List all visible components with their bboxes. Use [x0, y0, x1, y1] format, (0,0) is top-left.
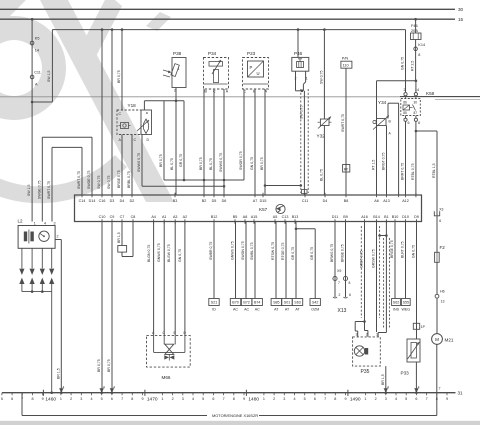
wire SW 0.75 rail-P46 [297, 30, 299, 58]
wire BRGT 0.75 Y34A-A13 [382, 126, 387, 196]
svg-text:6: 6 [314, 397, 316, 401]
svg-text:SW 0,75: SW 0,75 [107, 176, 111, 189]
wire GNWS 0.75 B5-B70 [231, 222, 236, 299]
svg-text:4: 4 [90, 397, 92, 401]
wire Y34 B loop [388, 103, 399, 195]
svg-text:C8: C8 [131, 215, 136, 219]
svg-text:SWRT 0,75: SWRT 0,75 [341, 114, 345, 132]
svg-text:1: 1 [364, 397, 366, 401]
svg-text:GN 0,75: GN 0,75 [178, 249, 182, 262]
svg-text:B9: B9 [343, 215, 348, 219]
svg-text:K57: K57 [259, 207, 268, 212]
svg-text:BRBL 0,75: BRBL 0,75 [127, 171, 131, 188]
connector S55 WEG [401, 299, 410, 312]
svg-text:4: 4 [418, 386, 420, 390]
svg-text:GRSW 0,75: GRSW 0,75 [372, 249, 376, 268]
wire BRBL 0.75 Y18C-D2 [127, 135, 132, 196]
wire RTBL 1.5 to F2 [416, 131, 437, 252]
svg-text:RTGE 0,75: RTGE 0,75 [281, 243, 285, 260]
wire BR 0.75 P23A-D15 [260, 89, 266, 195]
wire SW 0.75 rail-Y32 [319, 30, 324, 119]
wire SW 0.75 P46-C11 [300, 91, 305, 195]
svg-text:14: 14 [35, 49, 39, 53]
connector X3 pin 6 [434, 207, 443, 223]
svg-text:D4: D4 [120, 199, 125, 203]
svg-text:BR 0,75: BR 0,75 [117, 70, 121, 83]
svg-text:SWBR 0,75: SWBR 0,75 [209, 242, 213, 260]
svg-text:2: 2 [375, 397, 377, 401]
svg-text:GN 0,75: GN 0,75 [250, 157, 254, 170]
svg-text:RT 1,5: RT 1,5 [372, 160, 376, 170]
svg-text:P23: P23 [247, 51, 256, 56]
connector P/N 110 [341, 57, 352, 69]
svg-text:20A: 20A [411, 28, 418, 33]
svg-text:SW 0,75: SW 0,75 [300, 106, 304, 119]
svg-text:C16: C16 [99, 199, 106, 203]
connector line X58 [400, 81, 480, 97]
wire shield ground [265, 184, 307, 193]
wire bus 15 [0, 17, 464, 22]
svg-text:B72: B72 [243, 301, 249, 305]
svg-text:AC: AC [255, 308, 260, 312]
svg-text:BRWS 0,75: BRWS 0,75 [330, 244, 334, 262]
svg-text:INS: INS [393, 308, 400, 312]
connector S42 OZM [310, 299, 320, 312]
svg-text:GNWS 0,75: GNWS 0,75 [231, 241, 235, 260]
connector S63 AT [292, 299, 302, 312]
svg-text:A2: A2 [183, 215, 188, 219]
svg-text:X3: X3 [439, 207, 443, 211]
node junction RT [415, 80, 418, 83]
decorative bottom margin band [0, 421, 480, 425]
wire GN 0.75 rail-K58 pin2 [401, 30, 406, 92]
wire BR 0.75 C9-ground [107, 222, 115, 395]
wire SWGR 0.75 P23C ground [239, 89, 244, 180]
svg-text:SWGE 0,75: SWGE 0,75 [37, 180, 41, 199]
wire P33-ground [414, 362, 419, 394]
solenoid valve Y32 [317, 117, 332, 139]
svg-text:SWGE 0,75: SWGE 0,75 [87, 170, 91, 189]
svg-text:GNWS 0,75: GNWS 0,75 [157, 243, 161, 262]
connector boundary line X58 across page [0, 97, 480, 100]
svg-text:RTBL 1,5: RTBL 1,5 [432, 163, 436, 178]
svg-text:RT: RT [344, 167, 348, 171]
svg-text:2: 2 [404, 88, 406, 92]
svg-text:A3: A3 [173, 215, 178, 219]
svg-text:a: a [146, 111, 148, 115]
wire BL 0.75 Y32-D1 [319, 126, 324, 196]
svg-text:S85: S85 [273, 301, 279, 305]
svg-text:3: 3 [385, 397, 387, 401]
svg-text:3: 3 [54, 222, 56, 226]
svg-text:1P: 1P [421, 325, 426, 329]
svg-text:C14: C14 [79, 199, 86, 203]
MAP sensor P23 [243, 51, 269, 93]
svg-text:86: 86 [403, 101, 407, 105]
svg-text:RTBL 0,75: RTBL 0,75 [411, 163, 415, 180]
svg-text:B2: B2 [202, 199, 207, 203]
svg-text:8: 8 [233, 397, 235, 401]
connector B74 AC [252, 299, 262, 312]
svg-text:D9: D9 [414, 215, 419, 219]
svg-text:6: 6 [349, 293, 351, 297]
svg-text:BLSW 0,75: BLSW 0,75 [167, 244, 171, 262]
svg-text:H6: H6 [440, 290, 445, 294]
svg-text:C11: C11 [302, 199, 309, 203]
svg-text:D6: D6 [222, 199, 227, 203]
svg-text:D5: D5 [212, 199, 217, 203]
wire GRSW 0.75 B14-P35 1 [372, 222, 377, 333]
connector X13 [333, 269, 351, 314]
svg-text:B1: B1 [384, 215, 389, 219]
svg-text:A6: A6 [374, 199, 379, 203]
svg-text:D2: D2 [130, 199, 135, 203]
svg-text:9: 9 [446, 397, 448, 401]
svg-text:B8: B8 [344, 199, 349, 203]
svg-text:X9: X9 [337, 269, 341, 273]
svg-text:BR 0,75: BR 0,75 [199, 157, 203, 170]
svg-text:7: 7 [338, 281, 340, 285]
svg-text:ID: ID [212, 308, 216, 312]
svg-text:9: 9 [42, 397, 44, 401]
throttle potentiometer P34 [204, 51, 229, 93]
wire BRGE 0.75 B9-X13 [341, 222, 346, 298]
svg-text:SW 0,75: SW 0,75 [97, 176, 101, 189]
svg-text:B3: B3 [173, 199, 178, 203]
svg-text:RTSW 0,75: RTSW 0,75 [271, 242, 275, 260]
wire BLRT 0.75 D10-S55 [401, 222, 406, 299]
solenoid valve Y18 [117, 103, 152, 142]
svg-text:1460: 1460 [45, 397, 56, 403]
svg-text:GRBT 0,75: GRBT 0,75 [360, 251, 364, 268]
svg-text:SW 1,5: SW 1,5 [47, 70, 51, 82]
svg-text:C13: C13 [282, 215, 289, 219]
spark plugs and HT leads [19, 248, 54, 394]
svg-text:3: 3 [80, 397, 82, 401]
svg-text:BR 1,5: BR 1,5 [117, 232, 121, 243]
svg-text:GR 0,75: GR 0,75 [179, 154, 183, 167]
svg-text:7: 7 [324, 397, 326, 401]
svg-text:4: 4 [395, 397, 397, 401]
wire BRWS 0.75 D11-X13 [330, 222, 335, 298]
svg-text:BRGE 0,75: BRGE 0,75 [390, 240, 394, 258]
svg-text:SWGN 0,75: SWGN 0,75 [241, 241, 245, 260]
svg-text:4: 4 [103, 386, 105, 390]
wire P46 pin1 [303, 71, 305, 91]
svg-text:6: 6 [439, 219, 441, 223]
svg-text:M21: M21 [445, 338, 454, 343]
svg-text:A16: A16 [361, 215, 368, 219]
svg-text:1: 1 [60, 397, 62, 401]
svg-text:P: P [250, 65, 253, 70]
pump motor M21 [432, 334, 454, 345]
svg-text:P33: P33 [401, 371, 410, 376]
svg-text:2: 2 [70, 397, 72, 401]
svg-text:S01: S01 [284, 301, 290, 305]
svg-text:8: 8 [349, 281, 351, 285]
wire GN 0.75 P23B-A7 [250, 89, 255, 195]
svg-text:BRGE 0,75: BRGE 0,75 [117, 170, 121, 188]
wire to M21 [436, 298, 438, 334]
svg-text:C: C [134, 138, 137, 142]
svg-text:B10: B10 [392, 215, 399, 219]
svg-text:5: 5 [202, 397, 204, 401]
svg-text:2: 2 [366, 333, 368, 337]
svg-text:D4: D4 [323, 199, 328, 203]
svg-text:B12: B12 [211, 215, 218, 219]
svg-text:A8: A8 [243, 215, 248, 219]
svg-text:K14: K14 [418, 43, 425, 47]
svg-text:4: 4 [63, 386, 65, 390]
wire SWRT 0.75 110-B8 [341, 68, 350, 195]
ground bus 31 [1, 390, 463, 403]
connector B72 AC [241, 299, 251, 312]
svg-text:BR 1,5: BR 1,5 [381, 374, 385, 385]
svg-text:S63: S63 [294, 301, 300, 305]
wire SW 0.75 rail-D3 [107, 30, 112, 195]
svg-text:6: 6 [111, 397, 113, 401]
svg-text:BR 0,75: BR 0,75 [97, 359, 101, 372]
svg-text:110: 110 [343, 64, 349, 68]
wire SWBR 0.75 B12-S21 [209, 222, 214, 299]
wire GN 0.75 D9-P33 [412, 222, 426, 340]
relay X58 fuel pump relay [401, 97, 421, 116]
svg-text:K58: K58 [426, 91, 435, 96]
wire SWGE 0.75 D14-L2 pin4 [37, 137, 92, 221]
wire BR 1.5 P35-ground [381, 366, 389, 394]
svg-text:A7: A7 [253, 199, 258, 203]
svg-text:7: 7 [223, 397, 225, 401]
svg-text:A5: A5 [273, 215, 278, 219]
connector S21 ID [209, 299, 219, 312]
solenoid valve Y34 [373, 100, 392, 136]
fuel injector P46 [292, 51, 309, 81]
svg-text:A1: A1 [162, 215, 167, 219]
svg-text:85: 85 [403, 111, 407, 115]
svg-text:SW 0,75: SW 0,75 [319, 71, 323, 84]
wire BL 0.75 P34C-D5 [209, 89, 214, 195]
svg-text:F2: F2 [440, 245, 446, 250]
label MOTOR/ENGINE X16SZR [212, 413, 258, 418]
wire GRBT 0.75 A16-P35 2 [360, 222, 368, 337]
wire RTBL 0,75 [411, 121, 417, 195]
wire link to rail [32, 30, 52, 102]
svg-text:7: 7 [439, 387, 441, 391]
svg-text:31: 31 [458, 391, 464, 396]
svg-text:AC: AC [244, 308, 249, 312]
wire BR 0.75 P34B-B2 [199, 89, 204, 195]
svg-text:C7: C7 [120, 215, 125, 219]
wire BR 0.75 C10-ground [97, 222, 105, 395]
svg-text:D3: D3 [110, 199, 115, 203]
svg-text:C: C [119, 112, 122, 116]
wire SWGN 0.75 A8-B72 [241, 222, 246, 299]
svg-text:6: 6 [408, 121, 410, 125]
svg-text:7: 7 [426, 397, 428, 401]
svg-text:BR 0,75: BR 0,75 [107, 359, 111, 372]
svg-text:SWRT 0,75: SWRT 0,75 [47, 181, 51, 199]
fuse F46 20A [411, 18, 422, 40]
svg-text:9: 9 [141, 397, 143, 401]
svg-text:2: 2 [339, 293, 341, 297]
wire RTSW 0.75 A5-S85 [271, 222, 276, 299]
node bus15 tap [31, 18, 34, 21]
wire Y18a to P38 [144, 100, 184, 111]
temperature sensor P38 [163, 51, 186, 93]
svg-text:6: 6 [212, 397, 214, 401]
connector K5 pin 14 [30, 37, 39, 53]
wire BL 0.75 P38-B3 [170, 88, 176, 196]
wire SWWS 0.75 P34A-D6 [219, 89, 225, 195]
svg-text:6: 6 [415, 397, 417, 401]
svg-text:3: 3 [356, 333, 358, 337]
svg-text:RT 2,5: RT 2,5 [411, 61, 415, 71]
svg-text:S42: S42 [312, 301, 318, 305]
svg-text:BRRT 0,75: BRRT 0,75 [401, 163, 405, 180]
svg-text:P34: P34 [208, 51, 217, 56]
svg-text:5: 5 [101, 397, 103, 401]
wire BR 1.5 L2 pin2-ground [55, 240, 64, 395]
svg-text:A15: A15 [251, 215, 258, 219]
wire SWBL 0.75 A15-B74 [250, 222, 255, 299]
idle control stepper motor M66 [147, 331, 191, 380]
wire to Y34 and A6 [372, 81, 416, 195]
svg-text:7: 7 [121, 397, 123, 401]
svg-text:GN 0,75: GN 0,75 [412, 245, 416, 258]
svg-text:4: 4 [44, 222, 46, 226]
svg-text:3: 3 [283, 397, 285, 401]
wire SWWS 0.75 Y18D ground [137, 135, 224, 187]
svg-text:Y32: Y32 [317, 134, 326, 139]
svg-text:1490: 1490 [350, 397, 361, 403]
wire BRGE 0.75 Y18A-D4 [117, 135, 122, 196]
wire sensor ground bus [159, 101, 244, 182]
svg-text:4: 4 [192, 397, 194, 401]
svg-text:BL 0,75: BL 0,75 [209, 158, 213, 170]
wire BR 0.75 rail-Y18 pin C [117, 30, 122, 110]
wire ignition feed rail [52, 28, 405, 31]
svg-text:1480: 1480 [248, 397, 259, 403]
svg-text:3: 3 [182, 397, 184, 401]
svg-text:SWGR 0,75: SWGR 0,75 [239, 151, 243, 170]
svg-text:4: 4 [293, 397, 295, 401]
svg-text:WEG: WEG [402, 308, 411, 312]
svg-text:5: 5 [304, 397, 306, 401]
svg-text:1: 1 [263, 397, 265, 401]
svg-text:30: 30 [414, 101, 418, 105]
node junction x32 [31, 101, 34, 104]
svg-text:BR 0,75: BR 0,75 [260, 157, 264, 170]
svg-text:13: 13 [441, 300, 445, 304]
svg-text:S62: S62 [393, 301, 399, 305]
svg-text:2: 2 [273, 397, 275, 401]
svg-text:BLGN 0,75: BLGN 0,75 [147, 245, 151, 262]
svg-text:D14: D14 [89, 199, 96, 203]
svg-text:15: 15 [458, 17, 464, 22]
svg-text:M: M [435, 337, 439, 342]
svg-text:L2: L2 [18, 219, 24, 224]
svg-text:M66: M66 [162, 375, 171, 380]
svg-text:B5: B5 [233, 215, 238, 219]
wire SWRT 0.75 C14-L2 pin3 [47, 147, 82, 221]
svg-text:Y18: Y18 [128, 103, 137, 108]
svg-text:OZM: OZM [311, 308, 319, 312]
svg-text:30: 30 [458, 7, 464, 12]
wire B1 jog [378, 222, 389, 337]
wire shield A16 B14 [361, 226, 379, 318]
svg-text:5: 5 [405, 397, 407, 401]
svg-text:B14: B14 [373, 215, 380, 219]
svg-text:GN 0,75: GN 0,75 [401, 57, 405, 70]
svg-text:BR 1,5: BR 1,5 [56, 368, 60, 379]
wire shield drain [355, 320, 366, 337]
svg-text:BLRT 0,75: BLRT 0,75 [401, 241, 405, 258]
wire BLSW 0.75 A3-M66 [167, 222, 175, 336]
wire M21-ground [437, 344, 441, 392]
wire SW 0.75 rail-C16 [97, 30, 102, 195]
svg-text:P35: P35 [361, 369, 370, 375]
svg-text:9: 9 [344, 397, 346, 401]
svg-text:D15: D15 [260, 199, 267, 203]
connector C11 pin A [30, 71, 41, 87]
svg-text:B13: B13 [292, 215, 299, 219]
ECU K57 engine control unit [75, 193, 422, 224]
svg-text:1: 1 [34, 222, 36, 226]
svg-text:D10: D10 [402, 215, 409, 219]
wire GR 0.75 branch-S42 [296, 229, 315, 299]
svg-text:C10: C10 [99, 215, 106, 219]
svg-text:1: 1 [161, 397, 163, 401]
fuse F2 [435, 245, 446, 262]
wire BRGE 0.75 B10-S62 [390, 222, 395, 299]
svg-text:8: 8 [418, 121, 420, 125]
svg-text:A12: A12 [402, 199, 409, 203]
svg-text:X13: X13 [338, 308, 347, 314]
svg-text:Y34: Y34 [378, 100, 387, 105]
svg-text:4: 4 [387, 386, 389, 390]
svg-text:P/N: P/N [342, 57, 349, 61]
decorative watermark [0, 0, 174, 202]
svg-text:1: 1 [376, 333, 378, 337]
svg-text:BRGT 0,75: BRGT 0,75 [382, 153, 386, 170]
svg-text:9: 9 [243, 397, 245, 401]
svg-text:AC: AC [233, 308, 238, 312]
svg-text:SWWS 0,75: SWWS 0,75 [137, 153, 141, 172]
svg-text:GR 0,75: GR 0,75 [310, 247, 314, 260]
svg-text:BRGE 0,75: BRGE 0,75 [341, 244, 345, 262]
ignition coil module L2 [18, 219, 59, 249]
wire to connector H6 [435, 262, 445, 304]
wire GN 0.75 A2-M66 [178, 222, 185, 336]
svg-text:4: 4 [113, 386, 115, 390]
svg-text:2: 2 [172, 397, 174, 401]
svg-text:C9: C9 [110, 215, 115, 219]
svg-text:S55: S55 [403, 301, 409, 305]
svg-text:K5: K5 [35, 37, 40, 41]
connector S62 INS [392, 299, 401, 312]
wire GNWS 0.75 A1-M66 [157, 222, 164, 336]
svg-text:SWBL 0,75: SWBL 0,75 [250, 242, 254, 260]
svg-text:C11: C11 [34, 71, 41, 75]
svg-text:B70: B70 [232, 301, 238, 305]
svg-text:BL 0,75: BL 0,75 [170, 158, 174, 170]
svg-text:D11: D11 [332, 215, 339, 219]
svg-text:A13: A13 [383, 199, 390, 203]
svg-text:A4: A4 [151, 215, 156, 219]
svg-text:1470: 1470 [147, 397, 158, 403]
svg-text:SWRT 0,75: SWRT 0,75 [77, 171, 81, 189]
svg-text:GR 0,75: GR 0,75 [291, 247, 295, 260]
